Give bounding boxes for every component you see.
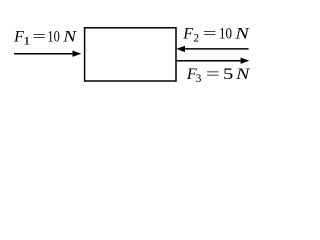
svg-text:F2=10N: F2=10N (182, 26, 250, 45)
svg-text:F3=5N: F3=5N (186, 66, 251, 85)
svg-text:F1=10N: F1=10N (13, 29, 78, 48)
